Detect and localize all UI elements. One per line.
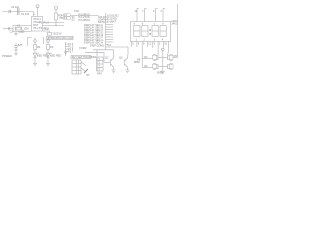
svg-text:DISP COM1: DISP COM1: [90, 43, 105, 47]
svg-text:LED RED: LED RED: [37, 53, 48, 57]
svg-text:2: 2: [144, 37, 146, 41]
svg-text:R8: R8: [137, 57, 141, 61]
svg-text:P1.0: P1.0: [44, 21, 50, 25]
svg-text:10k: 10k: [59, 15, 64, 19]
svg-text:Q6: Q6: [144, 64, 148, 68]
svg-text:BAT: BAT: [18, 43, 23, 47]
svg-text:POWER: POWER: [2, 54, 12, 58]
svg-text:4: 4: [162, 37, 164, 41]
svg-text:b: b: [142, 22, 144, 26]
svg-text:C3: C3: [10, 30, 14, 34]
svg-text:8: 8: [138, 42, 140, 46]
svg-text:S2: S2: [72, 18, 76, 22]
svg-text:30p: 30p: [44, 26, 49, 30]
svg-text:P2: P2: [39, 26, 43, 30]
svg-text:2: 2: [161, 9, 163, 13]
svg-text:P1.7: P1.7: [68, 49, 74, 53]
svg-text:c: c: [154, 23, 156, 26]
svg-text:P1: P1: [39, 21, 43, 25]
svg-text:3: 3: [159, 42, 161, 46]
svg-text:d: d: [162, 22, 164, 26]
svg-text:COM2: COM2: [79, 46, 87, 50]
svg-text:10: 10: [164, 42, 167, 46]
svg-text:VCC: VCC: [74, 9, 80, 13]
svg-text:5V: 5V: [59, 32, 62, 36]
svg-text:a: a: [134, 23, 136, 26]
svg-text:3461: 3461: [172, 21, 178, 25]
svg-text:RST1: RST1: [98, 20, 105, 24]
svg-text:X VBAT: X VBAT: [107, 19, 116, 23]
svg-text:LED RED: LED RED: [50, 53, 61, 57]
svg-text:Q5: Q5: [174, 54, 178, 58]
svg-text:8550: 8550: [157, 70, 163, 74]
svg-text:R3: R3: [50, 45, 54, 49]
svg-text:RP1: RP1: [97, 72, 103, 76]
svg-text:P3.2/INT0: P3.2/INT0: [79, 18, 91, 22]
svg-text:12: 12: [148, 42, 151, 46]
svg-text:4: 4: [153, 9, 155, 13]
svg-text:AT89C2051 MCU CLK: AT89C2051 MCU CLK: [48, 36, 74, 40]
svg-text:1: 1: [136, 37, 138, 41]
svg-text:3: 3: [154, 37, 156, 41]
svg-text:7: 7: [142, 9, 144, 13]
svg-text:KEY SET HOUR MIN: KEY SET HOUR MIN: [72, 55, 96, 59]
svg-text:C4: C4: [19, 30, 23, 34]
svg-text:6: 6: [132, 42, 134, 46]
svg-text:Q2: Q2: [105, 56, 109, 60]
svg-text:9: 9: [143, 42, 145, 46]
svg-text:R2: R2: [37, 45, 41, 49]
svg-text:Q4: Q4: [144, 55, 148, 59]
svg-text:12M: 12M: [24, 26, 29, 30]
svg-text:5: 5: [154, 42, 156, 46]
svg-text:Q3: Q3: [119, 56, 123, 60]
svg-text:Q1: Q1: [108, 43, 112, 47]
svg-text:C1 104: C1 104: [21, 12, 30, 16]
svg-text:C2 10u: C2 10u: [11, 5, 20, 9]
